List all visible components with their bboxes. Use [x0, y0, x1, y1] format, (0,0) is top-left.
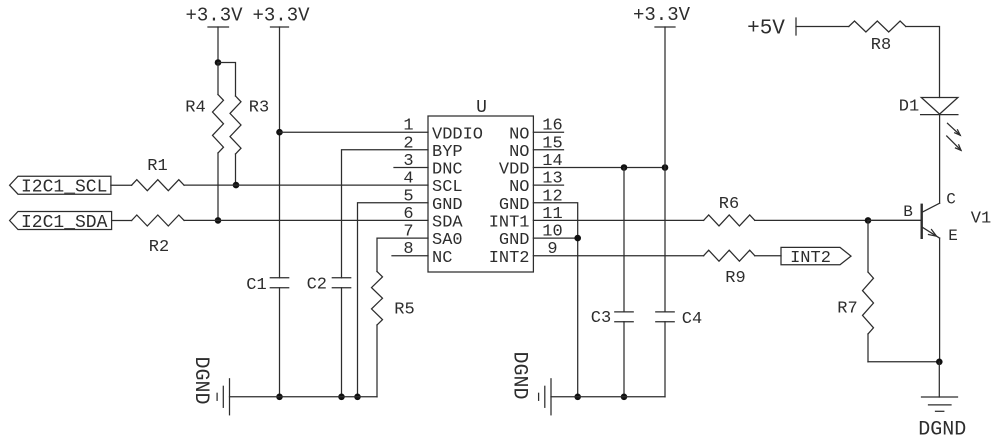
svg-text:3: 3 [403, 152, 413, 171]
wire pin 5 GND to ground [358, 203, 429, 397]
svg-text:10: 10 [542, 223, 562, 242]
wire pin 12 GND to ground [533, 203, 577, 397]
svg-text:2: 2 [403, 134, 413, 153]
wire tag to R2 [112, 220, 132, 222]
wire base node to transistor [868, 219, 922, 221]
ground DGND middle [508, 351, 665, 414]
svg-text:R8: R8 [871, 36, 891, 55]
svg-text:5: 5 [403, 187, 413, 206]
wire pin 15 NO stub [533, 149, 563, 151]
junction node R3/R4 split [215, 59, 222, 66]
wire pin 16 NO stub [533, 131, 563, 133]
svg-text:12: 12 [542, 187, 562, 206]
wire tag to R1 [111, 184, 132, 186]
power +3.3V rail 3 [633, 4, 691, 27]
wire pin 2 BYP to C2 [342, 150, 429, 278]
svg-text:C4: C4 [682, 310, 702, 329]
junction node C1 ground [276, 394, 283, 401]
svg-text:INT2: INT2 [790, 249, 831, 268]
svg-text:B: B [903, 203, 913, 221]
svg-text:R1: R1 [147, 157, 167, 176]
svg-text:+3.3V: +3.3V [252, 4, 310, 26]
svg-text:SCL: SCL [432, 178, 463, 197]
svg-text:DGND: DGND [508, 351, 531, 399]
svg-text:SA0: SA0 [432, 231, 463, 250]
capacitor C2 [307, 276, 351, 295]
svg-text:7: 7 [403, 223, 413, 242]
svg-text:C1: C1 [246, 276, 266, 295]
wire +3.3V rail1 lead [217, 27, 219, 63]
svg-text:D1: D1 [899, 98, 919, 117]
svg-text:GND: GND [499, 231, 530, 250]
port INT2 [781, 247, 851, 268]
port I2C1_SDA [10, 212, 112, 234]
ground DGND right [918, 362, 966, 441]
wire SCL net to IC pin 4 [184, 184, 428, 186]
resistor R8 [849, 21, 906, 55]
svg-text:R5: R5 [394, 301, 414, 320]
transistor V1 [903, 190, 991, 361]
svg-text:R7: R7 [837, 300, 857, 319]
svg-text:R9: R9 [725, 269, 745, 288]
svg-text:R2: R2 [149, 238, 169, 257]
resistor R6 [704, 195, 755, 226]
capacitor C1 [246, 276, 288, 295]
svg-text:C2: C2 [307, 276, 327, 295]
svg-text:BYP: BYP [432, 143, 463, 162]
wire D1 to collector [939, 115, 941, 204]
junction node C3 VDD [621, 164, 628, 171]
junction node base/R7 [865, 217, 872, 224]
resistor R1 [132, 157, 185, 191]
wire +3.3V rail2 vertical to C1 [279, 27, 281, 278]
svg-text:14: 14 [542, 152, 562, 171]
svg-text:GND: GND [499, 196, 530, 215]
svg-text:INT2: INT2 [489, 249, 530, 268]
svg-text:4: 4 [403, 170, 413, 189]
resistor R9 [704, 250, 755, 288]
junction node pin5 ground [354, 394, 361, 401]
svg-text:I2C1_SDA: I2C1_SDA [21, 213, 108, 233]
svg-text:+5V: +5V [747, 18, 785, 41]
capacitor C3 [591, 168, 633, 397]
junction node pin10 [574, 235, 581, 242]
junction node emitter/ground [936, 359, 943, 366]
svg-text:DNC: DNC [432, 161, 463, 180]
svg-text:9: 9 [547, 240, 557, 259]
svg-text:13: 13 [542, 170, 562, 189]
port I2C1_SCL [10, 176, 111, 198]
svg-text:VDD: VDD [499, 161, 530, 180]
resistor R5 [372, 272, 415, 397]
capacitor C4 [656, 168, 702, 397]
power +3.3V rail 1 [185, 4, 243, 27]
wire pin 11 INT1 to R6 [533, 219, 703, 221]
power +3.3V rail 2 [252, 4, 310, 27]
wire branch to R3 [218, 63, 236, 97]
svg-text:R3: R3 [249, 99, 269, 118]
resistor R7 [837, 220, 873, 361]
ground DGND left [189, 356, 377, 414]
svg-text:+3.3V: +3.3V [185, 4, 243, 26]
svg-text:V1: V1 [971, 210, 991, 229]
svg-text:SDA: SDA [432, 214, 463, 233]
junction node mid ground [574, 394, 581, 401]
svg-text:NO: NO [509, 178, 529, 197]
wire +5V to R8 [796, 26, 849, 28]
svg-text:R4: R4 [185, 99, 205, 118]
svg-text:15: 15 [542, 134, 562, 153]
junction node R4 to SDA [215, 217, 222, 224]
svg-text:NO: NO [509, 125, 529, 144]
junction node C2 ground [338, 394, 345, 401]
svg-text:6: 6 [403, 205, 413, 224]
svg-text:INT1: INT1 [489, 214, 530, 233]
wire +3.3V rail3 vertical [664, 27, 666, 168]
wire pin 10 GND [533, 237, 577, 239]
svg-text:DGND: DGND [918, 419, 966, 441]
wire pin 9 INT2 to R9 [533, 255, 703, 257]
svg-text:E: E [948, 227, 958, 245]
wire pin 13 NO stub [533, 184, 563, 186]
svg-text:GND: GND [432, 196, 463, 215]
resistor R3 [230, 96, 269, 185]
svg-text:1: 1 [403, 117, 413, 136]
svg-text:C: C [946, 190, 956, 208]
resistor R2 [132, 215, 185, 257]
svg-text:8: 8 [403, 240, 413, 259]
wire C2 to ground [341, 288, 343, 397]
op-amp U (IC body) [428, 98, 533, 272]
svg-text:NC: NC [432, 249, 452, 268]
svg-text:11: 11 [542, 205, 562, 224]
power +5V [747, 18, 796, 41]
svg-text:DGND: DGND [189, 356, 212, 404]
wire pin 7 SA0 to R5 [377, 238, 428, 271]
wire R8 to D1 [906, 27, 940, 98]
svg-text:16: 16 [542, 117, 562, 136]
LED D1 [899, 98, 961, 151]
junction node rail2 to pin1 [276, 129, 283, 136]
junction node R3 to SCL [233, 182, 240, 189]
wire R6 to transistor base [755, 219, 922, 221]
svg-text:C3: C3 [591, 309, 611, 328]
svg-text:I2C1_SCL: I2C1_SCL [21, 178, 107, 198]
wire R9 to INT2 tag [755, 255, 781, 257]
wire pin 3 DNC stub [394, 167, 428, 169]
svg-text:NO: NO [509, 143, 529, 162]
svg-text:R6: R6 [719, 195, 739, 214]
resistor R4 [185, 63, 223, 221]
wire pin 8 NC stub [392, 255, 428, 257]
wire R7 to emitter [868, 361, 939, 363]
svg-text:VDDIO: VDDIO [432, 125, 483, 144]
svg-text:+3.3V: +3.3V [633, 4, 691, 26]
wire SDA net to IC pin 6 [184, 219, 428, 221]
junction node C3 ground [621, 394, 628, 401]
junction node C4 VDD [662, 164, 669, 171]
wire pin 14 VDD net [533, 167, 665, 169]
wire pin 1 VDDIO [280, 131, 429, 133]
wire C1 to ground [279, 288, 281, 397]
svg-text:U: U [476, 98, 487, 118]
